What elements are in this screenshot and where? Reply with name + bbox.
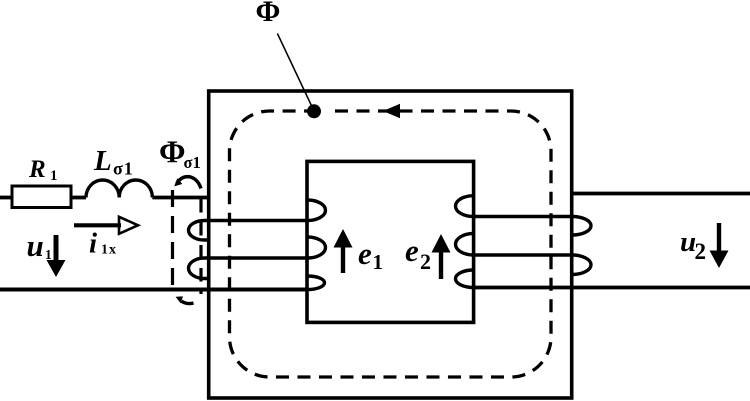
emf arrow e2 (up) [439, 250, 443, 279]
primary winding: outer arc 2 [189, 258, 210, 279]
secondary winding: window arc 3 [456, 270, 474, 288]
svg-text:e: e [405, 233, 419, 268]
svg-text:R: R [28, 156, 46, 183]
wire: top-left input [0, 196, 12, 200]
svg-text:2: 2 [420, 249, 431, 274]
svg-text:u: u [27, 228, 44, 263]
leakage flux top arc arrow [177, 177, 201, 189]
svg-text:σ1: σ1 [184, 153, 201, 172]
svg-text:Φ: Φ [256, 0, 281, 28]
primary winding: front line A [205, 219, 308, 222]
wire: bottom-left return (front line C) [0, 288, 308, 292]
svg-text:2: 2 [695, 239, 707, 264]
primary winding: window arc 1 [308, 200, 326, 221]
secondary winding: window arc 1 [456, 196, 474, 217]
svg-text:e: e [358, 236, 372, 271]
flux tap dot [307, 104, 321, 118]
leakage flux dashed loop right side [199, 199, 202, 294]
main flux dashed loop [230, 111, 552, 377]
voltage arrow u2 (down) [717, 223, 721, 252]
svg-text:σ1: σ1 [113, 159, 134, 179]
wire: top-right output [572, 192, 750, 196]
wire: inductor to core [152, 196, 208, 200]
secondary winding: outer arc 2 [571, 255, 591, 275]
resistor R1 [12, 186, 71, 208]
wire: bottom-right return (front line F) [474, 286, 750, 290]
secondary winding: window arc 2 [456, 234, 474, 256]
primary winding: window arc 2 [308, 237, 326, 258]
leakage flux bottom arc arrow [182, 301, 194, 303]
core outer rectangle [209, 91, 572, 398]
svg-text:1: 1 [45, 247, 52, 262]
primary winding: window arc 3 [308, 276, 325, 290]
emf arrow e1 (up) [341, 245, 345, 273]
leakage flux dashed loop left side [171, 190, 174, 289]
primary winding: outer arc 1 [189, 221, 210, 241]
inductor L_sigma1 (two humps) [86, 180, 152, 198]
svg-text:i: i [89, 228, 97, 260]
svg-text:L: L [93, 145, 112, 177]
secondary winding: outer arc 1 [571, 217, 591, 236]
flux direction arrow (points left on top dashed line) [383, 104, 400, 119]
current arrow i1x [74, 223, 121, 227]
svg-text:1: 1 [373, 250, 384, 274]
wire: resistor to inductor [71, 196, 86, 200]
secondary winding: front line D [474, 215, 573, 218]
voltage arrow u1 (down) [54, 235, 59, 262]
svg-text:1x: 1x [101, 243, 117, 258]
core window (inner rectangle) [307, 161, 474, 322]
secondary winding: front line E [474, 253, 573, 256]
primary winding: front line B [205, 256, 308, 259]
svg-text:Φ: Φ [159, 134, 186, 170]
svg-text:1: 1 [50, 168, 58, 184]
pointer line from phi label to dot [277, 34, 314, 112]
